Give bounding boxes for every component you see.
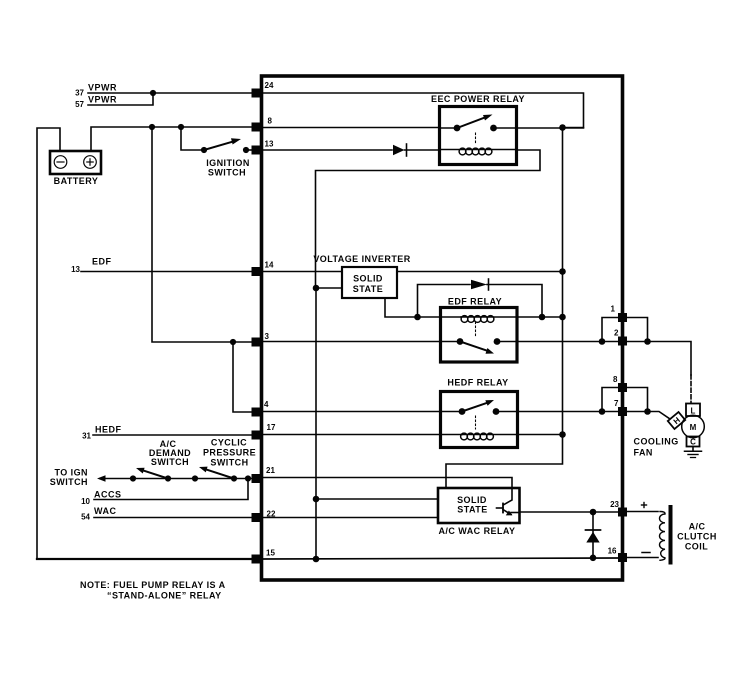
- svg-text:SWITCH: SWITCH: [208, 168, 246, 178]
- wire branch to pin 4: [233, 342, 261, 412]
- svg-text:COOLING: COOLING: [634, 437, 679, 447]
- svg-text:EDF RELAY: EDF RELAY: [448, 297, 502, 307]
- svg-text:4: 4: [264, 400, 269, 409]
- svg-text:14: 14: [265, 261, 274, 270]
- wire pin13 to relay coil: [262, 149, 392, 151]
- junction ground inverter drop: [313, 556, 320, 563]
- svg-text:L: L: [691, 407, 696, 416]
- wire inverter output to EDF coil: [385, 298, 461, 317]
- jumper pin8 pin7 outer: [627, 388, 648, 412]
- svg-text:SOLID: SOLID: [457, 495, 487, 505]
- wire inverter to switched feed: [397, 271, 563, 273]
- wire pin21 to WAC relay control: [262, 478, 512, 489]
- svg-text:23: 23: [610, 500, 619, 509]
- svg-text:IGNITION: IGNITION: [206, 158, 250, 168]
- junction pin2 inner: [599, 338, 606, 345]
- wire ground rail pin15 to pin16: [262, 558, 618, 559]
- junction relay output: [559, 124, 566, 131]
- wire pin22 to WAC relay: [262, 517, 438, 519]
- node 54 WAC: [81, 506, 116, 522]
- junction EDF coil feed: [559, 314, 566, 321]
- svg-text:2: 2: [614, 329, 619, 338]
- svg-text:HEDF: HEDF: [95, 425, 122, 435]
- diode CR1: [393, 144, 440, 156]
- svg-text:EDF: EDF: [92, 257, 112, 267]
- pin 2: [614, 329, 627, 346]
- svg-text:SWITCH: SWITCH: [210, 458, 248, 468]
- wire pin24 VPWR to relay output: [262, 93, 584, 128]
- svg-text:BATTERY: BATTERY: [54, 176, 99, 186]
- junction EDF diode left: [414, 314, 421, 321]
- junction HEDF coil return: [559, 431, 566, 438]
- wire pin7 to fan high: [627, 412, 670, 420]
- jumper pin8 pin7 inner: [602, 388, 618, 412]
- wire pin2 to fan low: [627, 342, 691, 376]
- junction pin2 outer: [644, 338, 651, 345]
- note text: [80, 580, 226, 601]
- svg-text:STATE: STATE: [457, 505, 487, 515]
- wire pin17 to HEDF coil: [262, 434, 462, 436]
- wire inverter ground drop: [315, 288, 317, 559]
- wire pin23 to clutch coil: [627, 511, 658, 513]
- svg-text:8: 8: [268, 117, 273, 126]
- svg-text:VPWR: VPWR: [88, 83, 117, 93]
- relay K2 EDF relay: [441, 297, 563, 363]
- switch A/C demand: [130, 439, 191, 482]
- node 10 ACCS: [81, 490, 121, 507]
- pin 21: [252, 466, 276, 483]
- wire battery feed down to pins 3 and 4: [152, 127, 261, 342]
- svg-text:21: 21: [266, 466, 275, 475]
- svg-text:COIL: COIL: [685, 542, 708, 552]
- relay U3 A/C WAC relay: [438, 488, 520, 536]
- coil L1 A/C clutch coil: [660, 507, 717, 563]
- junction diode top: [590, 509, 597, 516]
- junction battery feed A: [149, 124, 155, 130]
- svg-text:37: 37: [75, 89, 84, 98]
- wire inverter lower input: [316, 287, 342, 289]
- node 37 VPWR: [75, 83, 117, 98]
- EEC module box: [262, 76, 623, 580]
- wire HEDF switch to pin7: [496, 411, 618, 413]
- wire inverter tap to WAC relay: [316, 498, 438, 500]
- node 57 VPWR: [75, 95, 117, 110]
- diode CR3 clutch clamp: [586, 512, 601, 558]
- transistor Q1: [497, 488, 520, 515]
- node TO IGN SWITCH: [50, 468, 106, 488]
- svg-text:8: 8: [613, 375, 618, 384]
- wire ACCS: [94, 479, 248, 500]
- wire EDF to pin 14: [81, 271, 253, 273]
- node minus: [642, 552, 650, 554]
- wire ground rail to pin 15: [37, 558, 253, 560]
- wire battery positive feed to pin 8: [91, 127, 253, 151]
- voltage inverter U2: [313, 254, 410, 298]
- wire battery negative to ground rail: [37, 128, 60, 559]
- svg-text:16: 16: [608, 547, 617, 556]
- wire EDF switch to pin2: [497, 341, 618, 343]
- wire relay coil return wrap: [316, 150, 541, 288]
- svg-text:SWITCH: SWITCH: [50, 477, 88, 487]
- svg-text:CLUTCH: CLUTCH: [677, 532, 717, 542]
- wire relay output to junction: [516, 127, 584, 129]
- svg-text:24: 24: [265, 81, 274, 90]
- wire WAC to pin 22: [94, 517, 253, 519]
- svg-text:WAC: WAC: [94, 506, 117, 516]
- junction pin14 switched feed: [559, 268, 566, 275]
- pin 16: [608, 547, 627, 563]
- junction ignition branch: [178, 124, 184, 130]
- svg-text:31: 31: [82, 432, 91, 441]
- pin 1: [611, 305, 627, 323]
- svg-text:NOTE: FUEL PUMP RELAY IS A: NOTE: FUEL PUMP RELAY IS A: [80, 580, 226, 590]
- svg-text:SOLID: SOLID: [353, 274, 383, 284]
- junction EDF diode right: [539, 314, 546, 321]
- pin 14: [252, 261, 274, 277]
- svg-text:EEC POWER RELAY: EEC POWER RELAY: [431, 94, 525, 104]
- junction pin7 outer: [644, 408, 651, 415]
- jumper pin1 pin2 inner: [602, 318, 618, 342]
- diode CR2: [418, 279, 543, 317]
- wire switched feed down right: [446, 128, 563, 489]
- wire pin4 to HEDF switch: [262, 411, 462, 413]
- svg-text:STATE: STATE: [353, 284, 383, 294]
- svg-text:VOLTAGE INVERTER: VOLTAGE INVERTER: [313, 254, 410, 264]
- svg-text:ACCS: ACCS: [94, 490, 122, 500]
- svg-text:15: 15: [266, 549, 275, 558]
- svg-text:SWITCH: SWITCH: [151, 457, 189, 467]
- svg-text:A/C WAC RELAY: A/C WAC RELAY: [438, 526, 515, 536]
- wire A/C switch line to pin 21: [100, 478, 253, 480]
- pin 13: [252, 140, 274, 155]
- pin 22: [252, 510, 276, 523]
- junction inverter ground tap: [313, 285, 320, 292]
- wire VPWR pin24: [88, 92, 253, 94]
- node 13 EDF: [71, 257, 111, 275]
- svg-text:54: 54: [81, 513, 90, 522]
- relay U1 EEC power relay: [431, 94, 525, 165]
- svg-text:FAN: FAN: [634, 448, 653, 458]
- svg-text:PRESSURE: PRESSURE: [203, 448, 256, 458]
- wire pin16 to clutch coil: [627, 557, 658, 559]
- pin 8 right: [613, 375, 627, 392]
- wire HEDF coil return: [462, 434, 563, 436]
- junction diode bottom: [590, 555, 597, 562]
- wire pin14 through inverter: [262, 271, 342, 273]
- wire HEDF to pin 17: [93, 434, 253, 436]
- jumper pin1 pin2 outer: [627, 318, 648, 342]
- junction VPWR: [150, 90, 156, 96]
- svg-text:C: C: [690, 438, 696, 447]
- svg-text:1: 1: [611, 305, 616, 314]
- switch cyclic pressure: [192, 438, 256, 482]
- pin 4: [252, 400, 270, 417]
- wire 57 VPWR branch: [88, 93, 153, 105]
- svg-text:A/C: A/C: [689, 522, 706, 532]
- svg-text:13: 13: [265, 140, 274, 149]
- junction pin7 inner: [599, 408, 606, 415]
- pin 17: [252, 423, 276, 440]
- svg-text:10: 10: [81, 497, 90, 506]
- ignition switch S1: [181, 127, 253, 178]
- svg-text:57: 57: [75, 100, 84, 109]
- battery B1: [50, 151, 101, 186]
- motor M1 cooling fan: [634, 404, 705, 458]
- pin 24: [252, 81, 274, 98]
- relay K3 HEDF relay: [441, 378, 518, 448]
- svg-text:HEDF RELAY: HEDF RELAY: [447, 378, 508, 388]
- wire pin8 to relay common: [262, 127, 440, 129]
- svg-text:17: 17: [267, 423, 276, 432]
- svg-text:TO IGN: TO IGN: [54, 468, 88, 478]
- ground: [685, 447, 702, 458]
- svg-text:7: 7: [614, 399, 619, 408]
- wire pin3 to EDF switch: [262, 341, 460, 343]
- pin 7: [614, 399, 627, 416]
- svg-text:VPWR: VPWR: [88, 95, 117, 105]
- junction ACCS tap: [245, 475, 251, 481]
- wire fan low dashed: [690, 375, 692, 403]
- pin 15: [252, 549, 276, 564]
- svg-text:CYCLIC: CYCLIC: [211, 438, 247, 448]
- node plus: [642, 503, 647, 508]
- junction pin3/pin4 branch: [230, 339, 236, 345]
- junction WAC tap: [313, 496, 320, 503]
- svg-text:M: M: [690, 423, 697, 432]
- wire WAC output to pin 23: [520, 511, 619, 513]
- svg-text:13: 13: [71, 265, 80, 274]
- svg-text:3: 3: [265, 332, 270, 341]
- svg-text:“STAND-ALONE” RELAY: “STAND-ALONE” RELAY: [107, 591, 222, 601]
- node 31 HEDF: [82, 425, 121, 441]
- pin 8 left: [252, 117, 273, 132]
- pin 23: [610, 500, 627, 517]
- pin 3: [252, 332, 270, 347]
